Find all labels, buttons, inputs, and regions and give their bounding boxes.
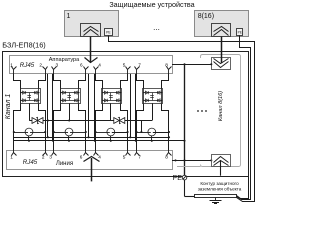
svg-text:PE: PE (238, 31, 242, 35)
svg-text:БЗЛ-ЕП8(16): БЗЛ-ЕП8(16) (2, 40, 45, 49)
svg-text:8: 8 (165, 154, 168, 159)
svg-text:Защищаемые устройства: Защищаемые устройства (109, 0, 194, 9)
svg-text:1: 1 (10, 63, 13, 68)
svg-text:1: 1 (67, 13, 71, 20)
svg-text:3: 3 (49, 154, 52, 159)
svg-text:5: 5 (123, 63, 126, 68)
svg-text:...: ... (153, 23, 160, 32)
svg-text:1: 1 (10, 154, 13, 159)
svg-text:Контур защитного: Контур защитного (200, 181, 239, 186)
svg-text:2: 2 (39, 63, 42, 68)
svg-text:8(16): 8(16) (198, 13, 214, 20)
svg-text:3: 3 (55, 63, 58, 68)
svg-text:2: 2 (42, 154, 45, 159)
svg-text:7: 7 (138, 154, 141, 159)
svg-text:RJ45: RJ45 (23, 159, 38, 166)
svg-text:Канал 1: Канал 1 (5, 94, 12, 120)
svg-text:5: 5 (123, 154, 126, 159)
svg-text:8: 8 (165, 63, 168, 68)
svg-text:4: 4 (98, 154, 101, 159)
svg-text:6: 6 (80, 63, 83, 68)
svg-text:Канал 8(16): Канал 8(16) (218, 91, 224, 121)
svg-text:PE: PE (173, 175, 183, 182)
svg-text:Линия: Линия (56, 161, 73, 167)
svg-text:4: 4 (98, 63, 101, 68)
svg-text:RJ45: RJ45 (20, 62, 35, 69)
svg-text:6: 6 (80, 154, 83, 159)
svg-text:Аппаратура: Аппаратура (49, 57, 80, 63)
svg-text:PE: PE (106, 31, 111, 35)
svg-text:заземления объекта: заземления объекта (198, 187, 242, 192)
svg-text:7: 7 (138, 63, 141, 68)
